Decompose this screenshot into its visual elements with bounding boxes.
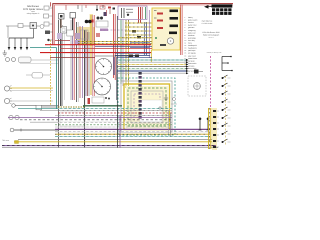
wire purple dashed (bottom rail): [2, 145, 216, 147]
wire navy (mid): [95, 45, 152, 47]
wire grey flasher out: [20, 60, 58, 64]
horn pair (front): [9, 115, 19, 119]
ballast resistor: [18, 24, 23, 28]
marker (plus): [158, 106, 162, 110]
wire top-left feed: [6, 26, 44, 38]
wire red stubs (below relay box): [139, 20, 141, 24]
components on bus (top): [96, 5, 115, 14]
multi-pin connector chain: [139, 72, 142, 119]
loop harness ring 6 (purple dashed): [134, 94, 160, 120]
loop harness ring 5 (grey): [131, 91, 163, 123]
steering column switch (bracket): [222, 56, 233, 72]
connector box (floor left): [36, 105, 58, 110]
svg-text:starter motor: starter motor: [188, 25, 197, 27]
wire navy pair (right mid): [115, 53, 150, 55]
bus stub wires (top centre): [66, 5, 107, 16]
instrument connector cluster: [96, 17, 108, 38]
connector block C: [75, 33, 80, 39]
ground (engine): [3, 50, 8, 56]
wire grey (bottom rail): [2, 147, 218, 149]
distributor and spark plug leads: [8, 38, 34, 50]
junction dot on power rail: [47, 39, 53, 41]
condenser: [40, 25, 44, 29]
wire black (column): [116, 16, 118, 105]
svg-text:1974 Spider Veloce: 1974 Spider Veloce: [23, 8, 44, 11]
wire yellow pair (right column): [209, 108, 211, 149]
wire black drop (bottom left-mid): [117, 105, 119, 148]
printed circuit connector: [88, 97, 111, 104]
legend note A: [202, 19, 213, 24]
connector on power rail (2nd): [44, 14, 53, 18]
horn H2: [12, 58, 16, 62]
wire yellow/black row (mid upper): [118, 37, 152, 39]
fuse panel (yellow box): [152, 8, 180, 50]
connector block D: [81, 30, 89, 39]
wire black over gauge: [95, 55, 139, 58]
fuel pump: [26, 73, 50, 79]
ground (body): [164, 95, 168, 101]
connector block E: [75, 40, 80, 45]
wire red pair (panel right edge): [181, 5, 183, 56]
headlamp right: [4, 98, 12, 104]
connector block B: [57, 33, 62, 39]
switch S1 (top): [59, 14, 65, 29]
highlight band (yellow, harness mid): [77, 27, 95, 45]
wire red pair (column): [114, 14, 116, 80]
svg-text:generator: generator: [188, 27, 195, 29]
connector block A: [61, 27, 74, 37]
pedal switch 2: [207, 118, 210, 131]
wire navy segments (mid-right): [130, 43, 150, 48]
rear switch column: [222, 75, 231, 145]
wire yellow pair (column): [126, 20, 129, 90]
rear connector blocks: [213, 110, 219, 148]
wire yellow headlamp: [10, 87, 53, 89]
wire green (column): [120, 18, 122, 84]
pedal switch (on floor bundle): [199, 118, 202, 131]
speedometer gauge: [96, 59, 112, 75]
legend note C: [207, 52, 222, 54]
loop harness ring 2 (grey): [121, 81, 172, 132]
floor harness (horizontal rows): [8, 106, 213, 142]
rear harness bundle (to right, with arrows): [117, 58, 188, 75]
TDC sensor label: [2, 139, 19, 143]
park lamp bulb: [12, 104, 58, 108]
wire yellow/black group (to panel): [125, 23, 152, 35]
wire navy drop (gauge right): [114, 57, 116, 100]
wire teal (ignition feed): [30, 47, 57, 49]
loop harness ring 3 (yellow): [124, 84, 170, 130]
junction dots (harness top): [85, 20, 94, 24]
title block: [23, 5, 44, 15]
wire main power bus (red, top): [51, 2, 234, 45]
wire dark red short: [50, 57, 95, 59]
ignition coil T1: [30, 23, 37, 39]
wire navy pair (column right): [144, 22, 146, 55]
switch S2 (top): [70, 13, 76, 31]
wire bends (ring right edge, down): [169, 110, 171, 137]
svg-text:main fuse box: main fuse box: [202, 19, 213, 22]
loop harness centre: [140, 100, 162, 122]
wire purple drop (bottom mid): [119, 115, 121, 148]
svg-text:Alfa Romeo: Alfa Romeo: [27, 5, 40, 8]
highlight band (right column): [212, 108, 217, 150]
wire grey headlamp return: [10, 89, 53, 91]
flasher unit: [19, 57, 32, 63]
wire dark red link: [55, 40, 70, 42]
tachometer gauge: [94, 78, 111, 95]
relay on power rail: [45, 31, 53, 35]
wire purple (column): [122, 18, 124, 86]
connector on power rail (3rd): [44, 22, 53, 26]
wire purple (panel left): [149, 10, 151, 62]
wire red feed lower: [40, 52, 151, 54]
wire red feed upper: [45, 44, 151, 46]
relay box (purple outline): [118, 6, 147, 20]
white gap box (bottom): [60, 112, 84, 126]
relay (small black): [194, 70, 203, 74]
loop harness ring 4 (green dashed): [128, 88, 166, 126]
highlight band (yellow, instrument feed): [90, 14, 93, 46]
connector marks (column right): [132, 30, 141, 39]
svg-text:Spider wiring diagram: Spider wiring diagram: [203, 33, 220, 36]
fuse box F1 (black fuse array): [204, 4, 232, 15]
headlamp left: [4, 86, 12, 92]
connector on power rail (top): [44, 6, 53, 10]
legend note B: [202, 31, 219, 39]
loop harness outer (teal dashed): [118, 78, 175, 135]
side marker bulb: [10, 128, 58, 132]
wire red (mid): [60, 48, 152, 50]
voltage regulator (dashed box): [188, 76, 206, 96]
legend component list: [185, 16, 198, 73]
wire magenta dashed (right column): [210, 56, 212, 110]
horn H1: [6, 58, 10, 62]
svg-text:colours per factory code: colours per factory code: [207, 52, 222, 54]
wire purple dashed (instrument): [100, 29, 125, 31]
junction node: [171, 98, 177, 105]
loop harness fill: [126, 86, 168, 128]
wire grey headlamp 2: [10, 100, 53, 102]
wire yellow/black dashed rows (mid): [78, 42, 152, 44]
main dash harness (vertical wires): [51, 15, 95, 148]
